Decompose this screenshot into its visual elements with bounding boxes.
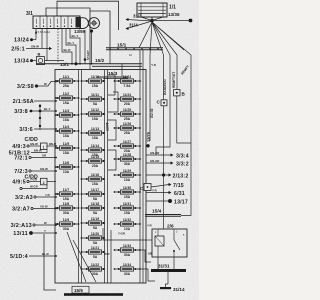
wire fan f (right edge) xyxy=(152,22,191,143)
wire to ground 31/3 xyxy=(127,20,152,22)
wire fan d (to connector B) xyxy=(152,22,177,90)
wire 13/59 to rail xyxy=(91,33,93,64)
fuse 11/9 (colA) xyxy=(55,218,79,231)
wire step BL-R xyxy=(62,29,72,64)
junction node xyxy=(150,19,154,23)
fuse 11/10 (colB) xyxy=(81,75,105,88)
ignition switch 1/1 xyxy=(137,3,167,17)
fuse 11/19 (colB) xyxy=(81,217,105,230)
wire fan e xyxy=(152,22,184,50)
wire jog b xyxy=(108,92,118,112)
fuse 11/6 (colA) xyxy=(55,161,79,174)
junction dots on box edge xyxy=(55,81,57,257)
ignition key symbol xyxy=(89,18,100,29)
fuse 11/13 (colB) xyxy=(81,127,105,140)
fuse 11/34 (colC) xyxy=(114,263,141,276)
wire bottom jog xyxy=(44,234,56,290)
fuse box 11 outline xyxy=(55,70,146,284)
wire diagonal a xyxy=(67,232,86,282)
rail 15/6 xyxy=(72,286,89,293)
fuse 11/26 (colC) xyxy=(114,122,141,135)
fuse 11/33 (colC) xyxy=(114,244,141,257)
wire to ground 31/4 xyxy=(127,21,152,29)
terminal 2/13:2 xyxy=(146,174,169,176)
fuse 11/20 (colB) xyxy=(81,232,105,245)
wire step from fuse 11/33 xyxy=(137,250,151,262)
wire vertical lower xyxy=(110,230,112,283)
wire diagonal b xyxy=(73,240,96,282)
wire from 3/1 along top edge xyxy=(57,1,119,30)
scan grain xyxy=(0,0,1,1)
wire relay to ground xyxy=(157,257,159,269)
wire fan to rail 15/1 xyxy=(139,22,152,48)
wire jog a xyxy=(108,75,116,95)
terminal 6/31 xyxy=(146,192,169,194)
bus bars vertical xyxy=(79,50,144,283)
fuse 11/1 (colA) xyxy=(55,75,79,88)
fuse 11/2 (colA) xyxy=(55,92,79,105)
wires box to junction xyxy=(141,17,152,21)
switch 3/1 body xyxy=(33,16,80,29)
wire right edge down to 15/4 xyxy=(181,143,191,216)
fuse 11/4 (colA) xyxy=(55,125,79,138)
terminal 7/15 xyxy=(151,185,169,188)
wire jog d xyxy=(108,150,117,170)
wire fan a (to 13/76) xyxy=(150,22,152,141)
connector B xyxy=(174,90,180,96)
fuse 11/25 (colC) xyxy=(114,108,141,121)
fuse 11/21 (colB) xyxy=(81,246,105,259)
fuse 11/24 (colC) xyxy=(114,93,141,106)
wire jog c xyxy=(108,120,117,140)
wire from 3/1 over the top xyxy=(46,8,90,64)
fuse 11/16 (colB) xyxy=(81,173,105,186)
fuse 11/29 (colC) xyxy=(114,169,141,182)
fuse 11/22 (colB) xyxy=(81,263,105,276)
junction post xyxy=(39,104,42,130)
wire fan c xyxy=(152,22,170,155)
fuse 11/17 (colB) xyxy=(81,188,105,201)
wire drop 15/2 to 15/3 xyxy=(121,64,123,77)
rail 15/2 second bar xyxy=(92,65,142,67)
wire bracket bottom xyxy=(103,228,137,240)
fuse 11/5 (colA) xyxy=(55,142,79,155)
wire from fuse to relay xyxy=(137,239,152,241)
wire W-GR hook xyxy=(20,187,22,189)
wire fan b (to connector C) xyxy=(152,22,164,100)
wire B down xyxy=(177,96,191,143)
fuse 11/15 (colB) xyxy=(81,155,105,168)
wire drop 15/2 into box xyxy=(89,64,91,70)
fuse 11/14 (colB) xyxy=(81,144,105,157)
fuse 11/28 (colC) xyxy=(114,153,141,166)
fuse 11/18 (colB) xyxy=(81,202,105,215)
wire pin drops from 3/1 xyxy=(36,29,58,63)
fuse 11/12 (colB) xyxy=(81,108,105,121)
fuse 11/31 (colC) xyxy=(114,202,141,215)
fuse 11/30 (colC) xyxy=(114,186,141,199)
fuse 11/3 (colA) xyxy=(55,109,79,122)
wire step BL-Y 2 xyxy=(66,29,76,64)
ground 31/14 xyxy=(166,284,169,287)
fuse 11/27 (colC) xyxy=(114,140,141,153)
terminal 13/17 xyxy=(146,200,168,202)
fuse 11/7 (colA) xyxy=(55,188,79,201)
rail junction dots xyxy=(71,63,73,65)
terminal 3/3:4 xyxy=(146,154,171,156)
fuse 11/11 (colB) xyxy=(81,93,105,106)
wire START xyxy=(84,30,86,64)
wire step BL-Y xyxy=(70,29,80,64)
relay 2/6 xyxy=(152,224,187,258)
fuse 11/8 (colA) xyxy=(55,202,79,215)
fuse 11/23 (colC) xyxy=(114,75,141,88)
wire drop 15/1 to 15/2 xyxy=(109,50,111,64)
wire bracket to 15/1 xyxy=(90,11,110,48)
terminal 3/3:2 xyxy=(146,162,171,164)
fuse 11/32 (colC) xyxy=(114,218,141,231)
wire from B to rail xyxy=(45,60,65,62)
wire C down to relay xyxy=(163,106,165,230)
connector 2/1:56A xyxy=(13,99,56,105)
switch 3/1 D-shaped connector xyxy=(81,18,89,29)
wire step from fuse 11/34 xyxy=(137,269,155,281)
